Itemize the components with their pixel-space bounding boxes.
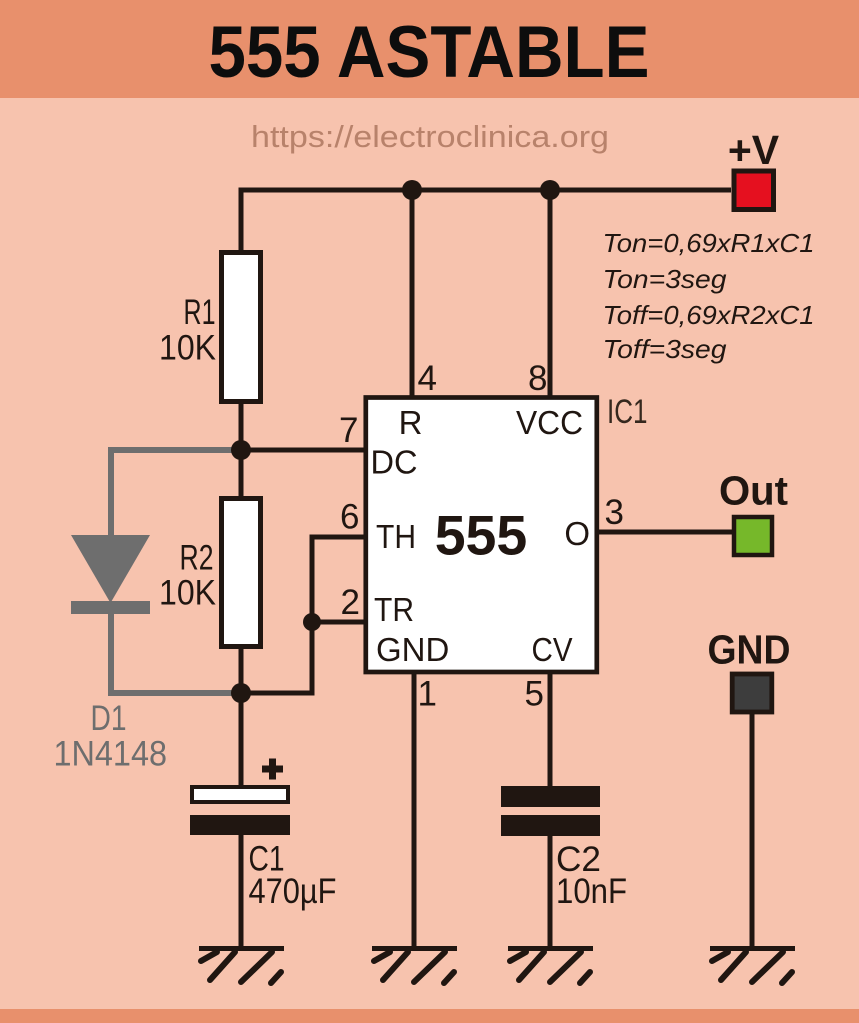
svg-text:R: R [399, 404, 423, 441]
svg-text:R2: R2 [180, 539, 214, 578]
svg-text:+V: +V [728, 127, 780, 173]
wire TR pin 2 [312, 620, 367, 625]
IC U1 555 body [366, 398, 597, 673]
svg-text:DC: DC [371, 444, 418, 481]
wire node B to TH/TR riser [241, 537, 367, 693]
svg-text:CV: CV [532, 631, 573, 668]
junction top rail / pin 4 [402, 180, 422, 200]
wire top rail [241, 190, 731, 404]
svg-text:7: 7 [339, 411, 358, 450]
svg-text:555 ASTABLE: 555 ASTABLE [209, 12, 650, 93]
node B junction R2/C1/diode [231, 683, 251, 703]
wire pin 4 [410, 190, 415, 398]
svg-text:GND: GND [708, 627, 791, 673]
svg-text:6: 6 [340, 498, 359, 537]
ground symbol pin1 [372, 949, 457, 984]
svg-text:R1: R1 [184, 293, 216, 332]
wire R1 bottom to node A to R2 [239, 404, 244, 496]
svg-text:VCC: VCC [516, 404, 583, 441]
capacitor C2 bottom plate [501, 815, 600, 836]
svg-text:1N4148: 1N4148 [54, 735, 168, 774]
svg-text:Toff=3seg: Toff=3seg [603, 334, 728, 364]
svg-text:5: 5 [525, 675, 544, 714]
terminal +V [734, 171, 774, 210]
diode D1 [71, 535, 150, 603]
svg-text:8: 8 [528, 359, 547, 398]
svg-text:470µF: 470µF [249, 872, 337, 911]
ground symbol GND [710, 949, 795, 984]
svg-text:Toff=0,69xR2xC1: Toff=0,69xR2xC1 [603, 300, 815, 330]
ground symbol C1 [199, 949, 284, 984]
svg-text:TR: TR [374, 591, 414, 628]
svg-text:555: 555 [435, 505, 528, 567]
junction top rail / pin 8 [540, 180, 560, 200]
resistor R1 [222, 253, 261, 402]
wire diode anode (gray) [111, 450, 241, 535]
wire C1 to ground [239, 835, 244, 947]
resistor R2 [222, 499, 261, 647]
capacitor C2 top plate [501, 786, 600, 807]
terminal Out [734, 517, 772, 555]
svg-text:D1: D1 [91, 699, 127, 738]
svg-text:Out: Out [719, 468, 788, 514]
svg-text:3: 3 [605, 493, 624, 532]
capacitor C1 plus sign [262, 759, 283, 780]
svg-text:https://electroclinica.org: https://electroclinica.org [251, 119, 609, 154]
svg-text:10K: 10K [159, 329, 216, 368]
terminal GND [732, 674, 772, 712]
svg-text:2: 2 [341, 583, 360, 622]
capacitor C1 top plate [192, 787, 288, 802]
wire pin 5 to C2 [548, 672, 553, 790]
svg-text:O: O [564, 515, 590, 552]
wire R2 bottom to node B to C1 [239, 646, 244, 788]
svg-text:10nF: 10nF [556, 872, 627, 911]
svg-text:Ton=0,69xR1xC1: Ton=0,69xR1xC1 [603, 228, 815, 258]
wire DC pin 7 [241, 448, 367, 453]
svg-text:10K: 10K [159, 574, 216, 613]
svg-text:4: 4 [418, 359, 437, 398]
wire diode cathode (gray) [111, 603, 241, 693]
wire pin 3 output [597, 530, 733, 535]
svg-text:TH: TH [376, 518, 416, 555]
capacitor C1 bottom plate [190, 815, 290, 835]
svg-text:1: 1 [418, 675, 437, 714]
junction TR tap [303, 613, 321, 631]
node A junction R1/R2/DC [231, 440, 251, 460]
wire pin 8 [548, 190, 553, 398]
wire C2 to ground [548, 836, 553, 947]
wire GND terminal to ground [750, 714, 755, 947]
svg-text:Ton=3seg: Ton=3seg [603, 264, 728, 294]
ground symbol C2 [508, 949, 593, 984]
wire pin 1 to ground [412, 672, 417, 947]
svg-text:GND: GND [376, 631, 449, 668]
svg-text:IC1: IC1 [607, 393, 648, 431]
